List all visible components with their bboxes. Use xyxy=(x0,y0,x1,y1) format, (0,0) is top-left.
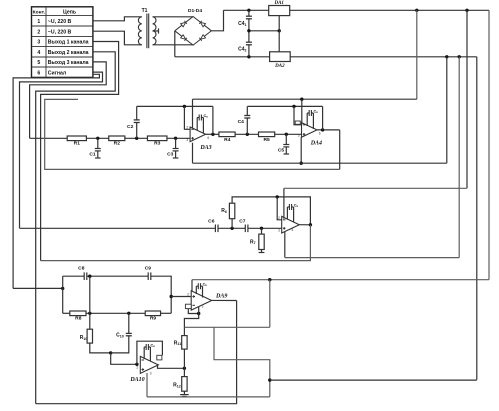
node R6 bottom tap xyxy=(230,227,233,230)
wire C9 to DA9 + corner xyxy=(151,276,171,313)
capacitor C5 xyxy=(285,134,287,144)
regulator DA2 xyxy=(270,52,291,62)
node C5 tap xyxy=(285,133,288,136)
svg-text:2: 2 xyxy=(187,293,189,297)
wire DA4 V- pin xyxy=(300,137,302,163)
capacitor C41 xyxy=(248,10,250,16)
wire wrap row6 signal b xyxy=(13,74,99,288)
wire -V rail stage2 xyxy=(285,257,459,259)
wire wrap row5 xyxy=(30,62,107,138)
wire R9 right lead xyxy=(161,312,172,314)
node bottom rail branch x459 xyxy=(458,55,461,58)
node DA9 inverting stub xyxy=(197,312,200,315)
wire input node risers xyxy=(62,276,64,288)
node DA10 output R11 R12 junction xyxy=(183,367,186,370)
svg-text:2: 2 xyxy=(186,125,188,129)
node DA5 output xyxy=(309,223,312,226)
capacitor C2 xyxy=(136,123,138,139)
node C4 tap xyxy=(246,133,249,136)
wire R4 to R5 xyxy=(235,133,258,135)
wire -V drop to stage2 rail xyxy=(458,57,460,258)
svg-text:R6: R6 xyxy=(221,208,227,214)
capacitor C9 xyxy=(147,272,149,280)
wire R3 to DA3 + input xyxy=(167,137,190,139)
svg-text:T1: T1 xyxy=(142,8,148,14)
wire -V rail stage3 xyxy=(147,396,270,398)
op-amp DA5 xyxy=(282,216,300,233)
resistor R6 xyxy=(229,203,234,219)
wire R7 leads and bottom tick xyxy=(261,228,263,234)
node DA4 inverting branch xyxy=(292,105,295,108)
diode D2 xyxy=(199,21,205,27)
wire signal line into R1 xyxy=(30,137,68,139)
svg-text:C10: C10 xyxy=(116,333,124,339)
resistor R1 xyxy=(67,136,86,141)
op-amp DA3 xyxy=(190,127,205,142)
op-amp DA10 xyxy=(140,356,158,373)
diode D4 xyxy=(199,35,205,41)
svg-text:3: 3 xyxy=(150,371,152,375)
svg-text:C3: C3 xyxy=(167,151,174,157)
svg-text:C7: C7 xyxy=(239,219,246,225)
correction capacitor DA5 xyxy=(286,207,288,219)
svg-text:6: 6 xyxy=(37,70,40,76)
wire row2 to T1 primary bottom xyxy=(93,31,142,45)
node DA10 - input xyxy=(135,363,138,366)
svg-text:R1: R1 xyxy=(74,141,81,147)
svg-text:5: 5 xyxy=(292,228,294,232)
resistor R7 xyxy=(259,234,264,249)
svg-text:3: 3 xyxy=(298,134,300,138)
wire +V rail stage1 xyxy=(193,98,417,100)
resistor R4 xyxy=(219,132,235,137)
node DA3 output xyxy=(211,133,214,136)
wire DA5 inverting drop xyxy=(277,197,282,220)
wire supply jog down xyxy=(214,327,270,397)
wire supply branch upper xyxy=(269,280,271,328)
capacitor C3 xyxy=(175,138,177,148)
capacitor C8 xyxy=(83,272,85,280)
svg-text:~U, 220 В: ~U, 220 В xyxy=(48,19,72,25)
svg-text:C6: C6 xyxy=(208,219,215,225)
node top rail / C41 xyxy=(247,9,250,12)
wire R5 to DA4 + input xyxy=(275,133,302,135)
svg-text:C2: C2 xyxy=(127,124,134,130)
wire DA3 V+ pin xyxy=(192,99,194,128)
node DA3 inverting branch xyxy=(183,105,186,108)
connector table xyxy=(32,7,93,78)
wire channel2 output return xyxy=(41,225,311,261)
wire -V feed stage3 xyxy=(270,379,477,381)
diode D3 xyxy=(181,35,187,41)
svg-text:Cк: Cк xyxy=(294,203,299,208)
wire channel3 output return xyxy=(36,301,237,404)
svg-text:Cк: Cк xyxy=(151,343,156,348)
node top rail branch x467 xyxy=(465,9,468,12)
wire top supply rail xyxy=(224,9,490,11)
wire C41 C42 midpoint to regulators xyxy=(249,30,279,32)
node DA5 inverting branch xyxy=(276,195,279,198)
svg-text:Выход 2 канала: Выход 2 канала xyxy=(48,50,89,56)
wire T1 secondary top to bridge xyxy=(153,16,194,18)
node DA4 V+ tap xyxy=(300,98,303,101)
wire R11 top route xyxy=(184,314,198,336)
wire to DA10 - input xyxy=(111,353,137,364)
wire C8 line xyxy=(63,275,84,277)
wire channel1 output drop xyxy=(339,130,341,170)
svg-text:C9: C9 xyxy=(145,266,152,272)
wire wrap row4 xyxy=(36,52,116,404)
node stage3 +V branch xyxy=(268,278,271,281)
op-amp DA4 xyxy=(302,123,317,138)
T1 center tap stub xyxy=(153,30,159,32)
svg-text:C8: C8 xyxy=(78,266,85,272)
wire DA4 V+ pin xyxy=(301,99,303,124)
wire R6 top lead and feedback line xyxy=(231,219,233,229)
capacitor C1 xyxy=(97,138,99,148)
svg-text:C41: C41 xyxy=(238,21,246,27)
svg-text:R9: R9 xyxy=(150,315,157,321)
svg-text:C5: C5 xyxy=(278,147,285,153)
svg-text:2: 2 xyxy=(278,216,280,220)
wire R12 top lead xyxy=(183,368,185,376)
svg-text:2: 2 xyxy=(37,29,40,35)
svg-text:1: 1 xyxy=(37,19,40,25)
wire DA9 + input line xyxy=(171,296,191,298)
wire C8C9 junction drop to R10 xyxy=(89,276,91,329)
node top rail branch x417 xyxy=(415,9,418,12)
node DA4 feedback xyxy=(321,128,324,131)
wire DA4 feedback riser xyxy=(322,106,324,129)
svg-text:DA1: DA1 xyxy=(273,1,283,6)
wire R11 top to supply branch xyxy=(184,326,269,328)
correction capacitor DA4 xyxy=(306,113,308,126)
resistor R8 xyxy=(70,311,86,316)
wire stage2 input line xyxy=(20,227,216,229)
svg-text:3: 3 xyxy=(278,229,280,233)
wire wrap row6 signal a xyxy=(20,72,103,228)
svg-text:6: 6 xyxy=(207,136,209,140)
wire DA4 feedback top xyxy=(247,105,322,107)
capacitor C4 xyxy=(246,118,248,134)
wire DA9 output xyxy=(212,299,237,301)
svg-text:DA9: DA9 xyxy=(215,294,227,300)
svg-text:DA3: DA3 xyxy=(199,145,211,151)
node C8-C9 junction xyxy=(88,275,91,278)
wire +V rail stage3 xyxy=(192,279,489,281)
svg-text:5: 5 xyxy=(37,60,40,66)
resistor R9 xyxy=(145,311,160,316)
wire R2 to R3 xyxy=(125,137,148,139)
wire DA10 feedback loop xyxy=(137,341,163,364)
svg-text:Cк: Cк xyxy=(204,114,209,119)
capacitor C42 xyxy=(248,31,250,42)
diode D1 xyxy=(181,21,187,27)
wire DA3 feedback top xyxy=(137,105,213,107)
correction capacitor DA9 xyxy=(195,286,197,294)
wire R8 to R9 xyxy=(86,312,145,314)
node R10 crossing xyxy=(88,312,91,315)
svg-text:2: 2 xyxy=(136,365,138,369)
node C3 tap xyxy=(174,137,177,140)
wire DA3 V- pin xyxy=(192,143,194,164)
wire -V rail stage1 xyxy=(193,162,447,164)
svg-text:R12: R12 xyxy=(173,383,181,389)
wire -V drop to stage3 rail xyxy=(476,57,478,380)
wire DA9 pin stub xyxy=(198,307,200,314)
capacitor C6 xyxy=(214,225,216,233)
wire bottom supply rail xyxy=(175,56,477,58)
svg-text:~U, 220 В: ~U, 220 В xyxy=(48,29,72,35)
wire +V drop to stage1 rail xyxy=(416,10,418,99)
node bottom rail / C42 xyxy=(247,55,250,58)
svg-text:R2: R2 xyxy=(114,141,121,147)
node DA1-DA2 link xyxy=(278,29,281,32)
wire +V drop to stage2 rail xyxy=(466,10,468,188)
diode bridge D1-D4 xyxy=(175,17,212,46)
node C10 tap xyxy=(127,312,130,315)
wire +V drop to stage3 rail xyxy=(488,10,490,279)
resistor R5 xyxy=(259,132,275,137)
svg-text:D1-D4: D1-D4 xyxy=(188,8,202,14)
svg-text:C1: C1 xyxy=(89,151,96,157)
wire +V rail stage2 xyxy=(284,187,467,189)
wire DA3 inverting drop xyxy=(184,106,190,129)
svg-text:R5: R5 xyxy=(263,137,270,143)
wire R1 to R2 xyxy=(86,137,108,139)
op-amp DA9 xyxy=(191,291,211,310)
wire DA4 inverting drop xyxy=(294,106,302,124)
svg-text:6: 6 xyxy=(319,131,321,135)
wire bridge - corner to bottom rail xyxy=(174,31,176,57)
correction capacitor DA10 xyxy=(143,347,145,359)
ground below R12 xyxy=(183,391,185,394)
node R10 C10 bottom junction xyxy=(109,351,112,354)
capacitor C10 xyxy=(128,313,130,333)
wire DA5 V+ pin xyxy=(283,188,285,218)
node bottom rail branch x447 xyxy=(445,55,448,58)
svg-text:R7: R7 xyxy=(250,239,256,245)
pin box DA10 xyxy=(157,355,162,360)
wire DA10 output xyxy=(158,365,185,368)
wire R11 bottom lead xyxy=(183,349,185,368)
node -V stage3 branch xyxy=(268,378,271,381)
wire DA5 output xyxy=(299,224,310,226)
resistor R2 xyxy=(109,136,125,141)
wire C8 to C9 xyxy=(87,275,148,277)
svg-text:R4: R4 xyxy=(224,137,231,143)
svg-text:Конт.: Конт. xyxy=(33,9,46,15)
node DA4 V- rail tap xyxy=(300,162,303,165)
node R7 top tap xyxy=(260,227,263,230)
wire DA3 output xyxy=(206,133,219,135)
wire DA10 V- pin xyxy=(146,373,148,397)
svg-text:DA10: DA10 xyxy=(129,377,144,383)
svg-text:R8: R8 xyxy=(75,315,82,321)
wire bridge + corner to top rail xyxy=(211,10,223,31)
node stage3 input xyxy=(61,287,64,290)
svg-text:Cк: Cк xyxy=(314,109,319,114)
svg-text:Сигнал: Сигнал xyxy=(48,70,66,76)
wire DA1 to DA2 vertical xyxy=(278,16,280,52)
wire row1 to T1 primary top xyxy=(93,17,142,21)
resistor R3 xyxy=(147,136,167,141)
correction capacitor DA3 xyxy=(196,118,198,131)
capacitor C7 xyxy=(244,225,246,233)
svg-text:DA4: DA4 xyxy=(310,141,322,147)
svg-text:3: 3 xyxy=(37,40,40,46)
pin box DA9 inverting xyxy=(185,304,191,308)
svg-text:Цепь: Цепь xyxy=(63,10,76,16)
wire stage3 input line xyxy=(13,287,63,289)
wire DA9 V+ pin xyxy=(191,280,193,292)
svg-text:C42: C42 xyxy=(238,47,246,53)
wire R8 left lead xyxy=(63,312,70,314)
regulator DA1 xyxy=(269,6,290,16)
svg-text:R3: R3 xyxy=(154,141,161,147)
transformer T1 xyxy=(138,17,141,45)
wire DA4 output xyxy=(317,129,340,131)
wire channel1 output return xyxy=(45,99,340,169)
svg-text:R10: R10 xyxy=(80,335,88,341)
wire C7 to DA5 + input xyxy=(248,227,282,229)
svg-text:Cк: Cк xyxy=(203,283,208,288)
pin box DA4 inverting xyxy=(295,121,300,124)
svg-text:Выход 1 канала: Выход 1 канала xyxy=(48,40,89,46)
svg-text:4: 4 xyxy=(37,50,40,56)
svg-text:DA2: DA2 xyxy=(274,64,285,69)
svg-text:C4: C4 xyxy=(238,119,245,125)
svg-text:R11: R11 xyxy=(174,340,181,346)
svg-text:Выход 3 канала: Выход 3 канала xyxy=(48,60,89,66)
node DA9 + input xyxy=(170,295,173,298)
resistor R11 xyxy=(182,336,187,350)
svg-text:3: 3 xyxy=(202,305,204,309)
node C1 tap xyxy=(96,137,99,140)
node C2 tap xyxy=(135,137,138,140)
wire R10 bottom lead xyxy=(90,343,111,353)
resistor R12 xyxy=(182,377,187,392)
wire DA5 V- pin xyxy=(284,232,286,258)
wire wrap row3 xyxy=(41,42,119,261)
wire DA3 feedback riser xyxy=(212,106,214,134)
wire C6 to C7 xyxy=(218,227,245,229)
resistor R10 xyxy=(87,329,92,343)
svg-text:3: 3 xyxy=(186,138,188,142)
wire -V drop to stage1 rail xyxy=(446,57,448,163)
wire T1 secondary bottom to bridge xyxy=(153,44,194,46)
wire DA9 inverting link to R11 xyxy=(188,309,198,314)
